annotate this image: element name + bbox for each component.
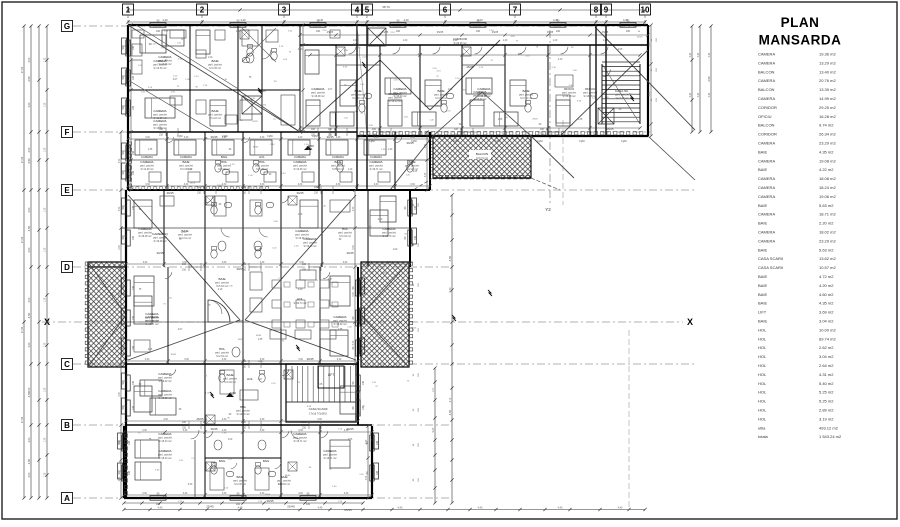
svg-text:S=4.35 m2: S=4.35 m2 (209, 67, 221, 70)
svg-text:3,30: 3,30 (410, 137, 415, 139)
svg-text:3.30: 3.30 (298, 49, 303, 51)
svg-text:Fg60: Fg60 (369, 140, 375, 143)
svg-text:19.36 m2: 19.36 m2 (819, 52, 836, 57)
svg-text:3,30: 3,30 (119, 392, 121, 397)
svg-text:1.20: 1.20 (298, 214, 303, 216)
svg-text:CASA SC.: CASA SC. (615, 89, 629, 93)
svg-text:S=4.22 m2: S=4.22 m2 (209, 117, 221, 120)
svg-text:4,40: 4,40 (238, 507, 243, 510)
svg-text:S=2.64 m2: S=2.64 m2 (216, 355, 228, 358)
svg-text:4,50: 4,50 (28, 147, 31, 152)
svg-text:4,50: 4,50 (28, 387, 31, 392)
svg-text:3,30: 3,30 (353, 206, 355, 211)
svg-text:19.06 m2: 19.06 m2 (819, 194, 836, 199)
svg-text:4.60 m2: 4.60 m2 (819, 292, 834, 297)
svg-text:1,35: 1,35 (45, 342, 47, 347)
svg-text:19.08 m2: 19.08 m2 (819, 158, 836, 163)
svg-text:3,30: 3,30 (119, 440, 121, 445)
svg-text:S=13.62 m2: S=13.62 m2 (616, 97, 630, 100)
svg-text:CAMERA: CAMERA (758, 238, 775, 243)
svg-text:Fg60: Fg60 (621, 140, 627, 143)
svg-text:BAIE: BAIE (758, 203, 767, 208)
svg-text:25/25: 25/25 (434, 105, 440, 107)
svg-text:100: 100 (156, 30, 161, 33)
svg-text:29.25 m2: 29.25 m2 (819, 105, 836, 110)
svg-text:HOL: HOL (259, 155, 265, 159)
svg-text:S=18.71 m2: S=18.71 m2 (370, 168, 384, 171)
svg-text:4.07: 4.07 (418, 54, 423, 56)
svg-text:4.07: 4.07 (258, 379, 263, 381)
svg-text:HOL: HOL (297, 297, 304, 301)
svg-text:30/45: 30/45 (171, 354, 177, 356)
svg-text:1 543.24 m2: 1 543.24 m2 (819, 434, 842, 439)
svg-text:27,93: 27,93 (21, 156, 24, 163)
svg-text:S=19.06 m2: S=19.06 m2 (296, 237, 310, 240)
svg-text:4,40: 4,40 (553, 18, 559, 22)
svg-text:Fg60: Fg60 (495, 140, 501, 143)
svg-text:4,50: 4,50 (28, 57, 31, 62)
svg-text:CASA SCARII: CASA SCARII (758, 265, 783, 270)
svg-text:30/45: 30/45 (265, 494, 271, 496)
svg-text:100: 100 (556, 30, 561, 33)
svg-text:3,40: 3,40 (698, 92, 700, 97)
svg-text:S=13.29 m2: S=13.29 m2 (154, 117, 168, 120)
svg-text:S=18.08 m2: S=18.08 m2 (139, 235, 153, 238)
svg-text:A: A (64, 494, 70, 503)
svg-text:100: 100 (128, 440, 131, 445)
svg-text:4,50: 4,50 (448, 255, 452, 261)
svg-text:Fg60: Fg60 (411, 140, 417, 143)
svg-text:2.10: 2.10 (218, 289, 223, 291)
svg-text:Fg60: Fg60 (222, 135, 228, 138)
svg-text:CAMERA: CAMERA (293, 432, 307, 436)
svg-text:CAMERA: CAMERA (158, 449, 172, 453)
svg-text:LIFT: LIFT (758, 310, 767, 315)
svg-text:2.62 m2: 2.62 m2 (819, 345, 834, 350)
svg-text:Fg60: Fg60 (537, 140, 543, 143)
svg-text:HOL: HOL (758, 390, 767, 395)
svg-text:4,50: 4,50 (28, 247, 31, 252)
svg-text:3,30: 3,30 (142, 430, 147, 432)
svg-text:HOL: HOL (758, 399, 767, 404)
svg-text:CAMERA: CAMERA (369, 160, 383, 164)
svg-text:S=3.04 m2: S=3.04 m2 (224, 381, 236, 384)
svg-text:S=18.08 m2: S=18.08 m2 (312, 95, 326, 98)
svg-text:CAMERA: CAMERA (158, 432, 172, 436)
svg-text:2.05: 2.05 (618, 49, 623, 51)
svg-text:1,35: 1,35 (45, 472, 47, 477)
svg-text:27,93: 27,93 (21, 326, 24, 333)
svg-text:4.72 m2: 4.72 m2 (819, 274, 834, 279)
svg-text:3,30: 3,30 (298, 137, 303, 139)
svg-text:HOL: HOL (259, 160, 266, 164)
svg-text:100: 100 (476, 30, 481, 33)
svg-text:30/45: 30/45 (307, 357, 314, 361)
svg-text:S=18.02 m2: S=18.02 m2 (159, 397, 173, 400)
svg-text:3.04 m2: 3.04 m2 (819, 319, 834, 324)
svg-text:4,40: 4,40 (318, 507, 323, 510)
svg-text:4,40: 4,40 (318, 18, 324, 22)
svg-text:3,30: 3,30 (260, 184, 265, 186)
svg-text:3,30: 3,30 (145, 184, 150, 186)
svg-text:100: 100 (132, 105, 135, 110)
svg-text:1.00: 1.00 (228, 439, 233, 441)
svg-text:1.35: 1.35 (498, 119, 503, 121)
svg-text:30/45: 30/45 (167, 191, 174, 195)
svg-text:HOL: HOL (758, 354, 767, 359)
svg-text:27,93: 27,93 (21, 66, 24, 73)
svg-text:4.07: 4.07 (173, 79, 178, 81)
svg-text:100: 100 (128, 470, 131, 475)
svg-text:3,40: 3,40 (709, 92, 711, 97)
svg-text:13.29 m2: 13.29 m2 (819, 60, 836, 65)
svg-text:3,30: 3,30 (119, 340, 121, 345)
svg-text:4,40: 4,40 (618, 507, 623, 510)
svg-text:CAMERA: CAMERA (758, 185, 775, 190)
svg-text:CORIDOR: CORIDOR (758, 105, 777, 110)
svg-text:D: D (64, 263, 70, 272)
svg-text:E: E (64, 186, 70, 195)
svg-text:4,12: 4,12 (450, 397, 452, 402)
svg-text:3,30: 3,30 (222, 262, 227, 264)
svg-text:Fg60: Fg60 (357, 135, 363, 138)
svg-text:3,30: 3,30 (317, 419, 322, 421)
svg-text:3,30: 3,30 (344, 430, 349, 432)
svg-text:3,30: 3,30 (298, 359, 303, 361)
svg-text:CAMERA: CAMERA (293, 160, 307, 164)
svg-text:HOL: HOL (758, 381, 767, 386)
svg-text:3,30: 3,30 (336, 184, 341, 186)
svg-text:CORIDOR: CORIDOR (758, 132, 777, 137)
svg-text:3,30: 3,30 (129, 143, 131, 148)
svg-text:3,30: 3,30 (298, 184, 303, 186)
svg-text:2.05: 2.05 (348, 439, 353, 441)
svg-text:4,50: 4,50 (28, 437, 31, 442)
svg-text:S=4.35 m2: S=4.35 m2 (180, 168, 192, 171)
svg-text:4.07: 4.07 (178, 329, 183, 331)
svg-text:1,35: 1,35 (45, 57, 47, 62)
svg-text:23.29 m2: 23.29 m2 (819, 141, 836, 146)
svg-text:3,30: 3,30 (337, 359, 342, 361)
svg-text:LIFT: LIFT (328, 373, 335, 377)
svg-text:CAMERA: CAMERA (295, 229, 309, 233)
svg-text:B: B (64, 421, 70, 430)
svg-text:CAMERA: CAMERA (180, 155, 192, 159)
svg-text:25/25: 25/25 (467, 65, 474, 69)
svg-text:HOL: HOL (240, 405, 247, 409)
svg-text:3,30: 3,30 (374, 184, 379, 186)
svg-text:3,30: 3,30 (374, 137, 379, 139)
svg-text:3,30: 3,30 (298, 430, 303, 432)
svg-text:CAMERA: CAMERA (138, 227, 152, 231)
svg-text:100: 100 (362, 380, 365, 385)
svg-text:4,40: 4,40 (398, 507, 403, 510)
svg-text:CAMERA: CAMERA (758, 194, 775, 199)
svg-text:30/45: 30/45 (256, 335, 262, 337)
svg-text:CAMERA: CAMERA (758, 230, 775, 235)
svg-text:27,93: 27,93 (21, 416, 24, 423)
svg-text:4,40: 4,40 (162, 18, 168, 22)
svg-text:100: 100 (132, 380, 135, 385)
svg-text:S=3.04 m2: S=3.04 m2 (339, 235, 351, 238)
svg-text:1,35: 1,35 (45, 247, 47, 252)
svg-text:4,40: 4,40 (158, 507, 163, 510)
svg-text:69.74 m2: 69.74 m2 (819, 336, 836, 341)
svg-text:CAMERA: CAMERA (758, 96, 775, 101)
svg-text:30/45: 30/45 (347, 251, 354, 255)
svg-text:3,30: 3,30 (119, 245, 121, 250)
svg-text:S=18.71 m2: S=18.71 m2 (324, 457, 338, 460)
svg-text:F: F (65, 128, 70, 137)
svg-text:4,50: 4,50 (28, 297, 31, 302)
svg-text:25/25: 25/25 (237, 319, 244, 323)
svg-text:BAIE: BAIE (221, 155, 228, 159)
svg-text:Fg60: Fg60 (312, 135, 318, 138)
svg-text:BAIE: BAIE (758, 167, 767, 172)
svg-text:BAIE: BAIE (758, 292, 767, 297)
svg-text:30/45: 30/45 (157, 251, 164, 255)
svg-text:HOL: HOL (758, 327, 767, 332)
svg-text:1.35: 1.35 (258, 339, 263, 341)
svg-text:20.76 m2: 20.76 m2 (819, 78, 836, 83)
svg-text:5.63 m2: 5.63 m2 (819, 203, 834, 208)
svg-text:BAIE: BAIE (758, 319, 767, 324)
svg-text:BAIE: BAIE (522, 89, 529, 93)
svg-text:S=9.74 m2: S=9.74 m2 (476, 157, 488, 160)
svg-text:30/45: 30/45 (211, 427, 218, 431)
svg-text:Fg60: Fg60 (579, 140, 585, 143)
svg-text:OFICIU: OFICIU (758, 114, 772, 119)
svg-text:1.35: 1.35 (578, 119, 583, 121)
svg-text:4,50: 4,50 (28, 102, 31, 107)
svg-text:4,50: 4,50 (448, 409, 452, 415)
svg-text:S=16.28 m2: S=16.28 m2 (563, 95, 577, 98)
svg-text:1,07: 1,07 (433, 387, 435, 392)
svg-text:4.31 m2: 4.31 m2 (819, 372, 834, 377)
svg-text:9.74 m2: 9.74 m2 (819, 123, 834, 128)
svg-text:3.19 m2: 3.19 m2 (819, 416, 834, 421)
svg-text:BALCON: BALCON (758, 123, 775, 128)
svg-text:S=20.76 m2: S=20.76 m2 (383, 235, 397, 238)
svg-text:2.64 m2: 2.64 m2 (819, 363, 834, 368)
svg-text:3,30: 3,30 (119, 158, 121, 163)
svg-text:3,30: 3,30 (143, 262, 148, 264)
svg-text:4,50: 4,50 (28, 472, 31, 477)
svg-text:CAMERA: CAMERA (294, 155, 306, 159)
svg-text:5.25 m2: 5.25 m2 (819, 399, 834, 404)
svg-text:CAMERA: CAMERA (145, 315, 159, 319)
svg-text:BAIE: BAIE (263, 459, 270, 463)
svg-text:CAMERA: CAMERA (758, 78, 775, 83)
svg-text:BAIE: BAIE (211, 59, 218, 63)
svg-text:CAMERA: CAMERA (153, 109, 167, 113)
svg-text:3,30: 3,30 (129, 108, 131, 113)
svg-text:5.25 m2: 5.25 m2 (819, 390, 834, 395)
svg-text:Fg60: Fg60 (267, 135, 273, 138)
svg-text:Fg60: Fg60 (177, 135, 183, 138)
svg-text:S=18.71 m2: S=18.71 m2 (294, 440, 308, 443)
svg-text:S=18.02 m2: S=18.02 m2 (478, 95, 492, 98)
svg-text:25/25: 25/25 (637, 36, 643, 38)
svg-text:2.89 m2: 2.89 m2 (819, 408, 834, 413)
svg-text:S=5.63 m2: S=5.63 m2 (216, 285, 228, 288)
svg-text:G: G (64, 22, 70, 31)
svg-text:CAMERA: CAMERA (758, 212, 775, 217)
svg-text:CAMERA: CAMERA (477, 87, 491, 91)
svg-text:S=4.60 m2: S=4.60 m2 (278, 483, 290, 486)
svg-text:25/25: 25/25 (602, 30, 609, 34)
svg-text:HOL: HOL (247, 377, 254, 381)
svg-text:CAMERA: CAMERA (332, 155, 344, 159)
svg-text:1.00: 1.00 (448, 89, 453, 91)
svg-text:S=2.20 m2: S=2.20 m2 (406, 168, 418, 171)
svg-text:100: 100 (236, 503, 241, 506)
svg-text:S=14.99 m2: S=14.99 m2 (141, 168, 155, 171)
svg-text:4,40: 4,40 (623, 18, 629, 22)
svg-text:X: X (687, 317, 693, 327)
svg-text:S=18.02 m2: S=18.02 m2 (334, 323, 348, 326)
svg-text:3,30: 3,30 (129, 172, 131, 177)
svg-text:4.20 m2: 4.20 m2 (819, 283, 834, 288)
svg-text:BAIE: BAIE (219, 459, 226, 463)
svg-text:25/25: 25/25 (383, 272, 389, 274)
svg-text:25/25: 25/25 (197, 417, 204, 421)
svg-text:3,30: 3,30 (163, 419, 168, 421)
svg-text:100: 100 (132, 170, 135, 175)
svg-text:25/45: 25/45 (206, 505, 214, 509)
svg-text:3,30: 3,30 (184, 359, 189, 361)
svg-text:S=19.06 m2: S=19.06 m2 (304, 245, 318, 248)
svg-text:25/25: 25/25 (411, 327, 417, 329)
svg-text:100: 100 (132, 205, 135, 210)
svg-text:CAMERA: CAMERA (758, 141, 775, 146)
svg-text:2.05: 2.05 (413, 171, 418, 173)
svg-text:1,20: 1,20 (503, 40, 508, 42)
svg-text:CAMERA: CAMERA (758, 60, 775, 65)
svg-text:totala: totala (758, 434, 769, 439)
svg-text:30/45: 30/45 (297, 191, 304, 195)
svg-text:100: 100 (396, 30, 401, 33)
svg-text:3,30: 3,30 (129, 72, 131, 77)
svg-text:3,30: 3,30 (366, 439, 368, 444)
svg-text:1,35: 1,35 (45, 437, 47, 442)
svg-text:S=29.25 m2: S=29.25 m2 (454, 42, 468, 45)
svg-text:C: C (64, 360, 70, 369)
svg-text:BALCON: BALCON (758, 69, 775, 74)
svg-text:BAIE: BAIE (236, 475, 243, 479)
svg-text:3,40: 3,40 (709, 52, 711, 57)
svg-text:CASA SCARII: CASA SCARII (758, 256, 783, 261)
svg-text:S=18.24 m2: S=18.24 m2 (394, 95, 408, 98)
svg-text:25/25: 25/25 (532, 119, 538, 121)
svg-text:4.07: 4.07 (518, 54, 523, 56)
svg-text:38,70: 38,70 (382, 5, 390, 9)
svg-text:3,30: 3,30 (260, 137, 265, 139)
svg-text:BAIE: BAIE (354, 89, 361, 93)
svg-text:100: 100 (156, 503, 161, 506)
svg-text:CAMERA: CAMERA (140, 160, 154, 164)
svg-text:2.10: 2.10 (378, 219, 383, 221)
svg-text:OFICIU: OFICIU (564, 87, 574, 91)
svg-text:MANSARDA: MANSARDA (759, 33, 842, 48)
svg-text:4,50: 4,50 (28, 207, 31, 212)
svg-text:3,30: 3,30 (353, 340, 355, 345)
svg-text:27,93: 27,93 (21, 236, 24, 243)
svg-text:1.35: 1.35 (148, 149, 153, 151)
svg-text:25/25: 25/25 (258, 361, 264, 363)
svg-text:3,30: 3,30 (425, 143, 427, 148)
svg-text:1,20: 1,20 (553, 40, 558, 42)
svg-text:S=18.08 m2: S=18.08 m2 (154, 240, 168, 243)
svg-text:1,35: 1,35 (45, 147, 47, 152)
svg-text:4,50: 4,50 (27, 158, 31, 164)
svg-text:CAMERA: CAMERA (758, 158, 775, 163)
svg-text:3,30: 3,30 (183, 430, 188, 432)
svg-text:100: 100 (132, 75, 135, 80)
svg-text:18.24 m2: 18.24 m2 (819, 185, 836, 190)
svg-text:BAIE: BAIE (758, 274, 767, 279)
svg-text:HOL: HOL (758, 345, 767, 350)
svg-text:25/25: 25/25 (607, 127, 614, 131)
svg-text:25/25: 25/25 (252, 121, 258, 123)
svg-text:13.40 m2: 13.40 m2 (819, 69, 836, 74)
svg-text:CAMERA: CAMERA (382, 227, 396, 231)
svg-text:4,40: 4,40 (478, 507, 483, 510)
svg-text:BALCON: BALCON (476, 152, 488, 156)
svg-text:3,30: 3,30 (129, 40, 131, 45)
svg-text:4,40: 4,40 (240, 18, 246, 22)
svg-text:3,30: 3,30 (145, 359, 150, 361)
svg-text:4.22 m2: 4.22 m2 (819, 167, 834, 172)
svg-text:CAMERA: CAMERA (758, 176, 775, 181)
svg-text:BAIE: BAIE (226, 373, 233, 377)
svg-text:100: 100 (306, 503, 311, 506)
svg-text:25/25: 25/25 (190, 182, 196, 184)
svg-text:S=18.24 m2: S=18.24 m2 (159, 457, 173, 460)
svg-text:1,20: 1,20 (453, 40, 458, 42)
svg-text:3,30: 3,30 (260, 419, 265, 421)
svg-text:2.05: 2.05 (148, 349, 153, 351)
svg-text:30/45: 30/45 (313, 322, 319, 324)
svg-text:S=4.20 m2: S=4.20 m2 (435, 97, 447, 100)
svg-text:25/45: 25/45 (344, 508, 352, 512)
svg-text:4.35 m2: 4.35 m2 (819, 301, 834, 306)
svg-text:3,30: 3,30 (353, 245, 355, 250)
svg-text:3,30: 3,30 (298, 493, 303, 495)
svg-text:8,40: 8,40 (449, 287, 452, 292)
svg-text:CAMERA: CAMERA (333, 315, 347, 319)
svg-text:100: 100 (132, 45, 135, 50)
svg-text:3,30: 3,30 (649, 91, 651, 96)
svg-text:5.63 m2: 5.63 m2 (819, 247, 834, 252)
svg-text:CAMERA: CAMERA (393, 87, 407, 91)
svg-text:100: 100 (132, 405, 135, 410)
svg-text:3.30: 3.30 (188, 484, 193, 486)
svg-text:16.28 m2: 16.28 m2 (819, 114, 836, 119)
svg-text:30/45: 30/45 (238, 339, 244, 341)
svg-text:1.20: 1.20 (388, 149, 393, 151)
svg-text:HOL: HOL (758, 372, 767, 377)
svg-text:30/45: 30/45 (211, 135, 218, 139)
svg-text:3,30: 3,30 (343, 262, 348, 264)
svg-text:30/45: 30/45 (267, 499, 274, 503)
svg-text:3,30: 3,30 (344, 493, 349, 495)
svg-text:18.71 m2: 18.71 m2 (819, 212, 836, 217)
svg-text:CAMERA: CAMERA (758, 52, 775, 57)
svg-text:18.08 m2: 18.08 m2 (819, 176, 836, 181)
svg-text:3,30: 3,30 (142, 493, 147, 495)
svg-text:100: 100 (316, 30, 321, 33)
